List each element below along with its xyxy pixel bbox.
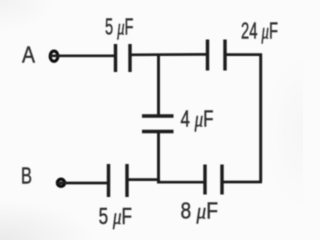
- capacitor C4 5uF (bottom left): [107, 164, 110, 197]
- svg-text:8 μF: 8 μF: [181, 198, 219, 224]
- terminal B: [57, 179, 64, 186]
- wire C5 to right corner: [222, 181, 262, 184]
- terminal A: [50, 51, 58, 61]
- wire C4 to C5 through bottom node: [127, 178, 160, 181]
- svg-text:5 μF: 5 μF: [99, 203, 132, 229]
- wire C1 to C2 through node T: [130, 53, 208, 56]
- wire middle branch lower: [157, 132, 160, 181]
- capacitor C2 24uF (top right): [206, 40, 209, 71]
- wire B to C4: [57, 182, 109, 185]
- capacitor C5 8uF (bottom right): [203, 165, 206, 195]
- wire bottom node to C5: [157, 181, 205, 184]
- wire A to C1: [50, 54, 116, 57]
- capacitor C3 4uF (middle): [142, 114, 174, 117]
- wire C2 to right corner: [225, 53, 262, 56]
- svg-text:4 μF: 4 μF: [181, 106, 214, 132]
- capacitor C1 5uF (top left): [114, 44, 117, 72]
- svg-text:A: A: [22, 42, 36, 68]
- svg-text:24 μF: 24 μF: [241, 18, 278, 44]
- wire middle branch upper: [157, 54, 160, 116]
- svg-text:5 μF: 5 μF: [105, 14, 134, 40]
- wire right vertical: [259, 54, 262, 183]
- svg-text:B: B: [21, 163, 32, 189]
